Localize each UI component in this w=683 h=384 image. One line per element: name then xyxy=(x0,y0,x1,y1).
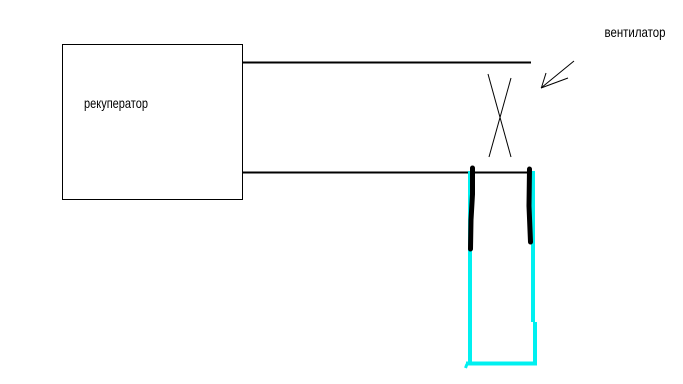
svg-text:вентилатор: вентилатор xyxy=(605,24,666,40)
svg-text:рекуператор: рекуператор xyxy=(84,95,148,111)
